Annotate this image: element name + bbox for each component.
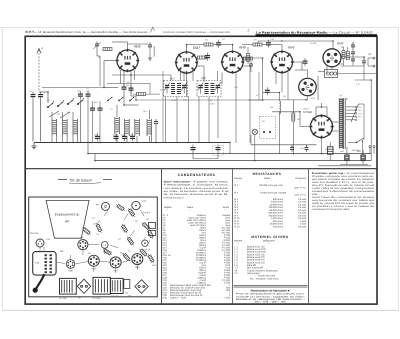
divider line schematic/tables: [25, 168, 377, 170]
svg-text:—: —: [237, 243, 239, 245]
svg-text:CV-7-8: CV-7-8: [143, 249, 151, 252]
tube socket 6M7: [110, 257, 121, 272]
wire V1 pin stub 2: [134, 70, 136, 80]
junction dot: [47, 91, 49, 93]
wire antenna cap to ground bus: [32, 100, 34, 142]
oscillator coil L4: [115, 117, 120, 134]
wire R7 top: [247, 47, 249, 54]
svg-text:250.000 ohms: 250.000 ohms: [268, 214, 283, 217]
wire det down: [249, 100, 251, 143]
svg-text:Sauf indication : F papier, no: Sauf indication : F papier, non isolant,: [164, 180, 230, 183]
wire: [131, 95, 136, 97]
bottom return wire: [318, 165, 371, 167]
wire: [112, 41, 128, 43]
wire: [221, 44, 233, 46]
wire MF1 top lead: [170, 75, 172, 81]
svg-text:et de service pour C.: et de service pour C.: [164, 196, 186, 199]
svg-text:CAV: CAV: [210, 103, 215, 106]
wire coil top lead: [51, 112, 53, 119]
wire V7 cathode down: [321, 138, 323, 154]
bypass capacitor C13: [129, 133, 135, 141]
wire MF2 top lead: [203, 76, 205, 81]
wire V1 left pin: [104, 60, 117, 62]
antenna coupling capacitor C2: [38, 92, 43, 100]
junction dot: [279, 92, 281, 94]
svg-text:6M7: 6M7: [113, 269, 118, 272]
wire V5 pin stub: [326, 66, 328, 74]
wire: [217, 153, 219, 159]
tube V1 6E8: [116, 49, 139, 72]
svg-text:TA: TA: [339, 95, 342, 98]
wave switch S3: [67, 100, 73, 105]
svg-text:v 150: v 150: [224, 296, 230, 299]
wire MF2 lead 1: [198, 97, 200, 143]
tube V4 6V6: [270, 50, 293, 73]
bottom labels: [111, 292, 128, 299]
svg-text:CV-8-?: CV-8-?: [143, 212, 151, 215]
wire w12 (chassis): [39, 247, 41, 252]
wire cap col bottom: [352, 63, 354, 66]
mains switch: [356, 138, 364, 143]
wire: [235, 97, 237, 143]
wire V4 pin stub: [275, 70, 277, 84]
oscillator coil L4c: [135, 119, 140, 136]
wire: [203, 66, 205, 82]
wire osc coil gnd: [116, 134, 118, 143]
wire cap down: [250, 68, 252, 72]
mains cable: [33, 275, 44, 293]
wire C17 top: [363, 57, 365, 60]
tube V6 indicator: [297, 76, 318, 97]
svg-text:MF: MF: [96, 204, 100, 207]
tube socket 6E8: [88, 255, 99, 270]
svg-text:RESISTANCES: RESISTANCES: [253, 172, 282, 176]
svg-text:MF-253: MF-253: [30, 232, 39, 235]
output transfo block: [110, 278, 123, 293]
svg-text:10.000 ohms pot. tonalité: 10.000 ohms pot. tonalité: [260, 191, 287, 194]
svg-text:—: —: [266, 180, 268, 182]
grid resistor V1: [103, 48, 112, 51]
junction dot: [229, 142, 231, 144]
oscillator switch S5: [107, 97, 112, 101]
svg-text:C36: C36: [163, 296, 168, 299]
column rule 3: [307, 169, 309, 304]
wire V1 cathode down: [123, 71, 125, 86]
wire C6b up: [99, 101, 101, 105]
svg-text:CV: CV: [235, 272, 239, 275]
wire coil bottom lead: [56, 136, 58, 143]
oscillator switch S6: [118, 97, 123, 101]
svg-text:6M7: 6M7: [193, 46, 201, 50]
wire pot tap: [272, 111, 300, 113]
svg-text:Bobine accord GO: Bobine accord GO: [247, 251, 266, 254]
column rule 2: [231, 169, 233, 304]
wire V3 pin to MF2: [221, 73, 223, 85]
wire w8 (chassis): [82, 250, 84, 255]
wire: [287, 84, 289, 100]
tube socket 6B8: [66, 260, 75, 273]
V3 anode resistor R7: [247, 54, 250, 62]
wire C6b down: [99, 114, 101, 143]
wire: [62, 136, 64, 143]
wire osc link drop: [149, 83, 151, 94]
svg-text:Bobine d'acc. OC: Bobine d'acc. OC: [247, 245, 265, 248]
wire osc coil2 top: [148, 110, 150, 119]
junction dot: [370, 79, 372, 81]
svg-text:500.000 ohms: 500.000 ohms: [268, 212, 283, 215]
svg-text:6E8: 6E8: [134, 45, 140, 49]
wire w1 (chassis): [56, 262, 65, 264]
tube socket MF2: [78, 237, 88, 250]
wire R10 down: [343, 59, 345, 67]
wire w10 (chassis): [104, 248, 106, 254]
wire osc coil2 gnd: [148, 136, 150, 143]
wire: [301, 62, 303, 70]
resistor r6 (chassis): [147, 228, 154, 239]
wire pot down: [278, 112, 280, 136]
svg-text:M, la tension d'essai pour F e: M, la tension d'essai pour F et M,: [164, 193, 230, 196]
wire osc cap down: [155, 126, 157, 135]
svg-text:2.500 ohms: 2.500 ohms: [271, 217, 284, 220]
wire to C15: [263, 92, 265, 94]
tracking capacitor C6b: [98, 105, 103, 113]
svg-text:Emplacement du: Emplacement du: [55, 213, 80, 217]
wire: [197, 44, 204, 46]
svg-text:Bobine oscill. PO: Bobine oscill. PO: [247, 259, 265, 262]
svg-text:MATERIEL DIVERS: MATERIEL DIVERS: [251, 235, 289, 239]
wire V6 top: [307, 70, 309, 77]
wire MF1 lead 2: [176, 97, 178, 143]
svg-text:Osc: Osc: [143, 110, 147, 113]
wire C21 top: [306, 145, 308, 148]
wire w14 (chassis): [110, 245, 118, 248]
wire rail left up: [250, 135, 252, 145]
svg-text:Bobine oscill. GO: Bobine oscill. GO: [247, 261, 265, 264]
transformer tap 2: [346, 109, 355, 111]
small relay box RT: [124, 279, 130, 288]
svg-text:0,1: 0,1: [256, 94, 259, 97]
svg-text:250 V: 250 V: [302, 108, 309, 111]
ground bus: [34, 142, 230, 144]
junction dot: [363, 56, 365, 58]
svg-text:Pot: Pot: [270, 106, 273, 109]
oscillator switch S7: [129, 97, 134, 101]
wire bus drop 2: [94, 154, 96, 161]
oscillator coil L4b: [125, 119, 130, 136]
screen resistor R10: [342, 51, 345, 59]
svg-text:1 watt: 1 watt: [300, 220, 306, 223]
power transformer TA: [59, 278, 76, 299]
wire bus drop 1: [87, 143, 89, 154]
wire: [187, 44, 198, 46]
wire V4 to V5 grid: [293, 61, 302, 63]
wire heater drop 1: [162, 71, 164, 143]
wire: [262, 44, 266, 46]
resistor r3 (chassis): [121, 223, 129, 234]
decoupling capacitor C13: [191, 145, 196, 153]
wire V4 top: [281, 45, 283, 52]
junction dot: [232, 44, 234, 46]
screen RC right of V2: [198, 53, 211, 61]
wire cap to bus: [155, 135, 157, 143]
wire C25 bottom: [329, 154, 331, 160]
svg-text:900 ohms: 900 ohms: [273, 220, 284, 223]
wire cap col top: [352, 42, 354, 45]
trimmer arrow t2: [60, 112, 70, 118]
wire: [270, 92, 280, 94]
wire: [151, 136, 153, 143]
wire V2 top cap: [186, 44, 188, 52]
wave switch S2: [57, 102, 63, 107]
wire: [368, 57, 373, 59]
wire padder down: [80, 100, 82, 143]
scanned page right edge: [397, 28, 399, 311]
ground symbol: [31, 143, 36, 149]
svg-text:40.000 ohms: 40.000 ohms: [270, 223, 284, 226]
RF coil L1: [52, 119, 57, 136]
svg-text:Cadran — 2x25: Cadran — 2x25: [170, 296, 187, 299]
svg-text:mandé ou révision, rappeler au: mandé ou révision, rappeler au fabri-: [236, 295, 305, 298]
wire V2 pin stub: [192, 72, 194, 81]
svg-text:fils de liaison: fils de liaison: [70, 178, 92, 182]
wire T2 to frame: [338, 73, 378, 75]
svg-text:commutateur PU lorsqu'il est u: commutateur PU lorsqu'il est utilisé.: [312, 208, 350, 211]
wire lamp down: [254, 135, 256, 161]
svg-text:R 13: R 13: [235, 226, 241, 229]
cap column c-c: [351, 56, 355, 63]
svg-text:CO-250: CO-250: [92, 297, 101, 300]
wire osc coil top: [116, 105, 118, 117]
svg-text:1/2 watt: 1/2 watt: [298, 206, 306, 209]
wire: [128, 43, 149, 45]
wire avc junction: [248, 99, 263, 101]
tube V2 6M7: [175, 51, 198, 74]
diode load group V3: [253, 40, 271, 48]
heater rail: [95, 160, 371, 162]
wire T2 left: [318, 71, 325, 73]
wire coil bottom lead: [77, 136, 79, 143]
svg-text:1/2 watt: 1/2 watt: [298, 201, 306, 204]
wire MF1 lead 1: [165, 97, 167, 143]
wire HT top rail: [258, 40, 333, 42]
junction dot: [362, 160, 364, 162]
wire: [262, 58, 264, 93]
svg-text:R 11: R 11: [235, 220, 240, 223]
column rule 1: [161, 169, 163, 304]
coupling capacitor C15: [265, 87, 270, 95]
svg-text:6E8: 6E8: [92, 268, 97, 271]
wire right vertical: [370, 80, 372, 161]
svg-text:500 ohms: 500 ohms: [273, 198, 284, 201]
decoupling capacitor C14: [213, 145, 224, 156]
svg-text:non isolant. Le nombre qui sui: non isolant. Le nombre qui suit indique,: [164, 187, 230, 190]
svg-text:sans 12 ¹⁄₂₅: sans 12 ¹⁄₂₅: [294, 194, 306, 197]
svg-text:O2-250: O2-250: [111, 295, 119, 298]
svg-text:— Transfo de sortie.: — Transfo de sortie.: [255, 275, 276, 278]
resistor r9 (chassis): [102, 248, 113, 256]
wire: [316, 106, 327, 108]
wire w11 (chassis): [43, 247, 45, 252]
screen RC right of V3: [244, 57, 253, 60]
svg-text:TR: TR: [128, 295, 131, 298]
grommet 72: [101, 242, 108, 249]
svg-text:6H8: 6H8: [135, 266, 140, 269]
speaker terminals: [368, 53, 375, 67]
wire V2 cathode down: [186, 73, 188, 97]
wire: [367, 58, 369, 66]
wire: [72, 136, 74, 143]
wire: [344, 56, 364, 58]
wire w13 (chassis): [88, 243, 99, 245]
wire C6a up: [92, 101, 94, 105]
wire V3 pin down: [235, 73, 237, 98]
HT rail: [88, 153, 371, 155]
svg-text:Puissance: Puissance: [295, 177, 306, 180]
svg-text:HP: HP: [368, 53, 372, 56]
junction dot: [299, 111, 301, 113]
padder capacitor C5: [86, 90, 91, 99]
wire AF rail: [263, 99, 308, 101]
small can 73: [149, 223, 156, 229]
svg-text:6H8: 6H8: [239, 46, 246, 50]
bypass capacitor C11: [113, 133, 119, 141]
wire: [257, 41, 259, 45]
chassis layout box: [29, 197, 158, 297]
junction dot: [135, 99, 137, 101]
wire: [271, 44, 282, 46]
svg-text:—: —: [224, 210, 226, 212]
svg-text:—: —: [268, 243, 270, 245]
wire: [131, 74, 171, 76]
grid capacitor C8: [126, 84, 134, 93]
wire under caps: [341, 65, 364, 67]
junction dot: [281, 40, 283, 42]
wire R8 down: [292, 121, 294, 154]
wire: [193, 158, 218, 160]
svg-text:GO: GO: [67, 111, 71, 114]
wire w22 (chassis): [120, 252, 126, 256]
svg-text:R 10: R 10: [235, 217, 241, 220]
wire w6 (chassis): [115, 268, 117, 273]
wire: [321, 103, 323, 107]
junction dot: [123, 142, 125, 144]
wire: [33, 142, 35, 145]
svg-text:Valeur: Valeur: [187, 206, 194, 209]
wire C25 top: [329, 142, 331, 147]
svg-text:Pour le remplacement des pièce: Pour le remplacement des pièces com-: [236, 293, 305, 296]
svg-text:10.000 ohms: 10.000 ohms: [270, 203, 284, 206]
wire C17 down: [363, 64, 365, 80]
wire w18 (chassis): [96, 220, 100, 226]
wire w7 (chassis): [136, 265, 138, 270]
junction dot: [99, 142, 101, 144]
wire bottom gnd link: [340, 164, 368, 166]
svg-text:La Représentation du Récepteur: La Représentation du Récepteur-Radio — L…: [256, 30, 373, 34]
svg-text:20.000: 20.000: [309, 42, 317, 45]
svg-text:250.000 ohms: 250.000 ohms: [268, 206, 283, 209]
junction dot: [321, 106, 323, 108]
junction dot: [155, 142, 157, 144]
antenna lead-in: [37, 47, 44, 92]
junction dot: [321, 153, 323, 155]
svg-text:1/2 watt: 1/2 watt: [298, 209, 306, 212]
svg-text:Cam: Cam: [142, 200, 147, 203]
wire: [96, 49, 98, 57]
svg-text:TA-795: TA-795: [59, 297, 67, 300]
wire MF2 top lead 2: [217, 71, 219, 81]
junction dot: [94, 160, 96, 162]
wire V7 left pin: [300, 126, 311, 128]
wire MF2 lead 3: [217, 97, 219, 138]
svg-text:exc. : excitation 1.200 ohms.: exc. : excitation 1.200 ohms.: [250, 277, 279, 280]
wire: [249, 66, 251, 100]
svg-text:F électrolytique, C chimique.: F électrolytique, C chimique. M mica,: [164, 184, 230, 187]
svg-text:1/2 watt: 1/2 watt: [298, 198, 306, 201]
wire V1 pin stub 1: [120, 70, 122, 84]
pickup jack dashed box: [260, 116, 276, 138]
pot shaft circle: [142, 240, 148, 246]
wire MF1 top lead 2: [183, 71, 185, 81]
dial lamp: [252, 129, 257, 134]
wire down to wave switch: [47, 92, 49, 103]
wire switch down: [362, 141, 364, 161]
wire heater drop 2: [258, 72, 260, 100]
resistor r4 (chassis): [126, 236, 135, 247]
wire: [213, 44, 216, 46]
svg-text:Isolmt: Isolmt: [223, 206, 229, 209]
wire w5 (chassis): [93, 266, 95, 272]
wire V6 down: [307, 97, 309, 100]
wire R10 top: [343, 47, 345, 51]
junction dot: [87, 153, 89, 155]
wire R7 to cap: [247, 62, 249, 65]
wire V2 pin to MF1: [180, 72, 182, 81]
svg-text:—: —: [299, 180, 301, 182]
junction dot: [130, 74, 132, 76]
wire antenna bus: [42, 87, 104, 89]
handwritten check mark: [151, 27, 155, 33]
wire selector out: [359, 103, 365, 105]
wire MF2 lead 2: [208, 97, 210, 143]
IF transformer MF2: [197, 81, 221, 97]
svg-text:HP: HP: [78, 297, 82, 300]
wire V3 right pin: [242, 65, 250, 67]
wire w3 (chassis): [99, 261, 110, 262]
cap column c-b: [351, 49, 355, 56]
bypass capacitor C12: [121, 133, 127, 141]
filter capacitor C26: [345, 149, 349, 165]
svg-text:5.000 ohms: 5.000 ohms: [271, 201, 284, 204]
dial drum "Cad": [132, 200, 151, 215]
terminal strip TS: [33, 252, 56, 276]
svg-text:5864 — 1946 — 5869 — 1950: 5864 — 1946 — 5869 — 1950: [254, 301, 286, 304]
svg-text:1/2 watt: 1/2 watt: [298, 212, 306, 215]
junction dot: [254, 160, 256, 162]
wire w15 (chassis): [124, 214, 128, 220]
resistor r8 (chassis): [147, 253, 155, 264]
wire: [123, 92, 125, 105]
filter choke diamond: [77, 279, 90, 293]
AVC line: [136, 99, 263, 101]
wire: [363, 104, 365, 140]
transformer tap 5: [346, 119, 355, 121]
small socket left: [36, 239, 44, 247]
svg-text:CONDENSATEURS: CONDENSATEURS: [178, 173, 216, 177]
wire V7 top pin 2: [326, 107, 328, 116]
header underline bar right: [256, 34, 378, 36]
wire to osc coil: [124, 104, 139, 106]
wave switch S1: [47, 103, 53, 108]
